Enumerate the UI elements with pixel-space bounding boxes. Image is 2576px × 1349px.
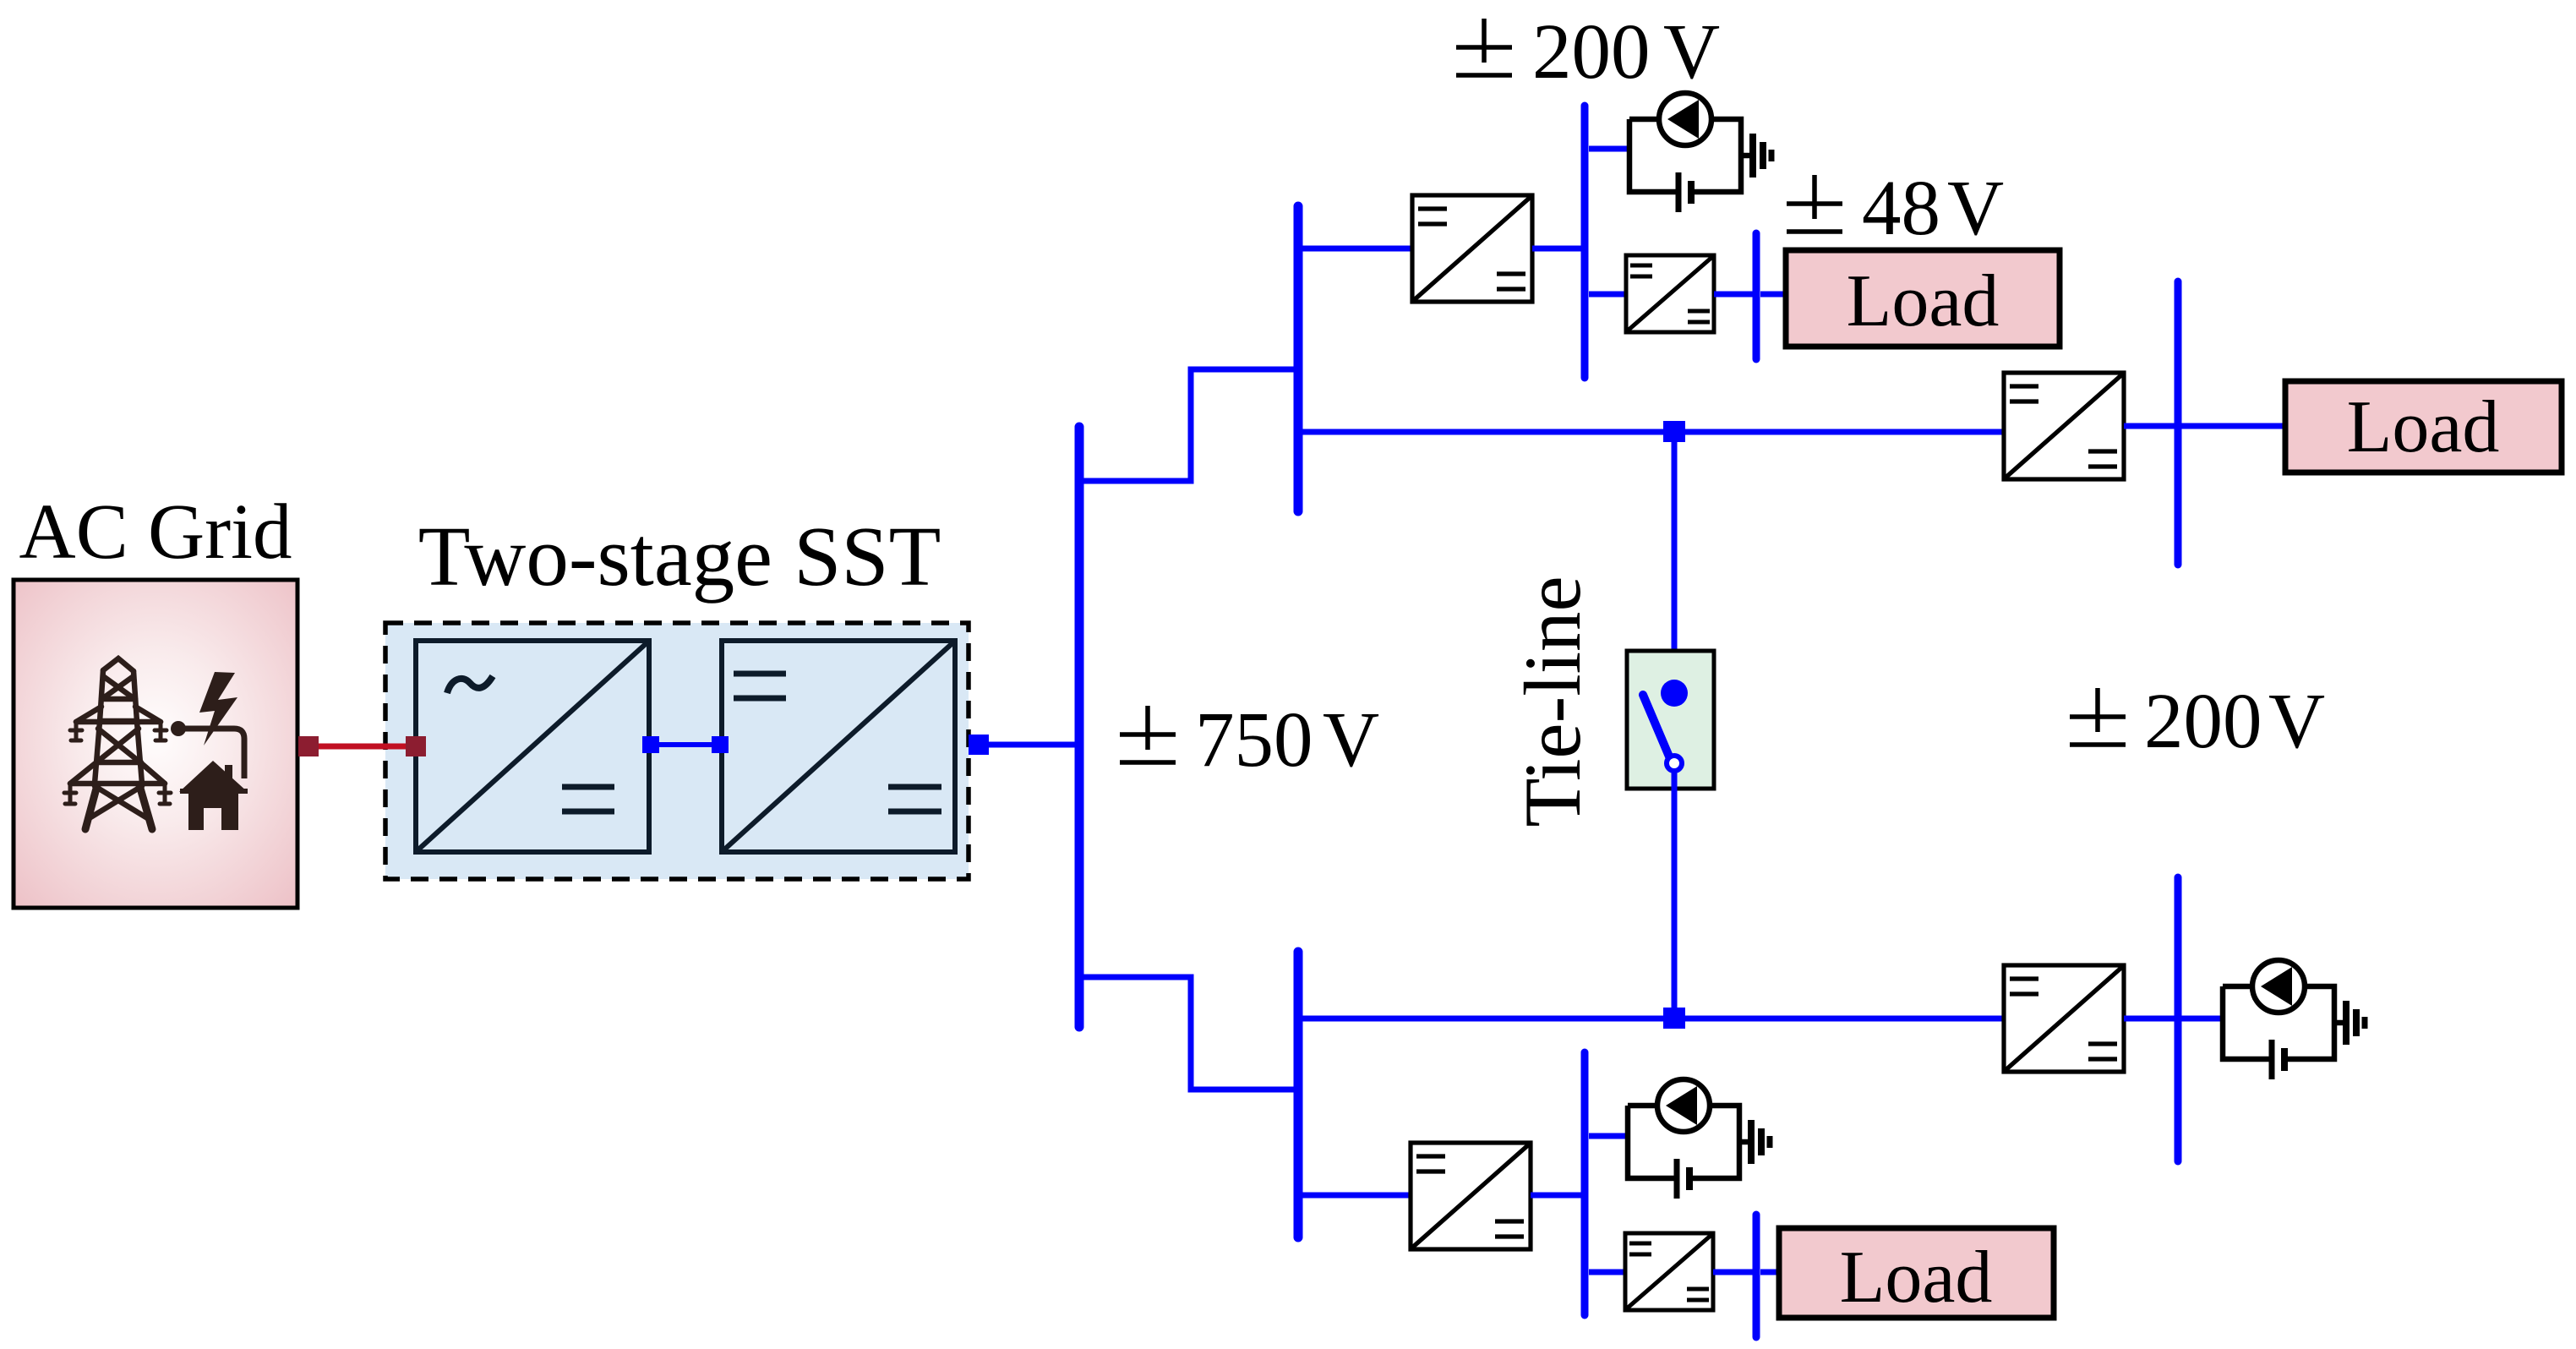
Load R1 box — [2285, 381, 2562, 472]
DC/DC converter S2 — [1625, 1233, 1713, 1310]
DC link connector square left — [642, 736, 659, 753]
DC/DC converter M1 — [1412, 195, 1532, 302]
switch lever — [1643, 695, 1669, 756]
wire bus to battery 2 — [1589, 1133, 1628, 1139]
SST AC/DC converter U1 — [416, 641, 649, 852]
junction node 2 — [1663, 1008, 1685, 1029]
wire M1 to ±200V bus — [1532, 246, 1582, 252]
tie-line wire lower — [1672, 771, 1678, 1008]
wire S2 to ±48V bus 2 — [1713, 1270, 1755, 1275]
±48V label — [1787, 175, 1842, 232]
tie-line switch box — [1627, 651, 1714, 789]
wire ±48V bus 2 to Load 2 — [1760, 1270, 1782, 1275]
±48V bus 2 — [1753, 1215, 1760, 1337]
DC link connector square right — [712, 736, 729, 753]
AC grid icon: transmission tower — [70, 658, 165, 819]
wire ±48V bus to Load 1 — [1760, 292, 1789, 298]
wire M2 to ±200V bus subgrid 2 — [1531, 1193, 1582, 1199]
±200V bus subgrid 2 — [1581, 1052, 1589, 1315]
DC/DC converter B3 — [2004, 965, 2124, 1072]
svg-text:Tie-line: Tie-line — [1508, 576, 1597, 827]
±200V label top — [1456, 19, 1512, 75]
wire main bus to subgrid bus 1 (step) — [1079, 369, 1296, 481]
feeder 2 wire — [1302, 1016, 2004, 1022]
wire bus to converter S1 — [1589, 292, 1626, 298]
subgrid bus 1 — [1294, 206, 1303, 511]
Load 1 box — [1786, 250, 2060, 347]
wire B1 to right ±200V bus and Load — [2124, 423, 2289, 429]
AC Grid box — [14, 580, 297, 908]
wire main bus to subgrid bus 2 (step) — [1079, 977, 1296, 1090]
±200V label right — [2070, 688, 2126, 745]
AC wire (dark red) — [308, 744, 416, 750]
main DC bus ±750V — [1075, 427, 1084, 1027]
AC wire connector square left — [298, 736, 319, 756]
SST output wire to main bus — [979, 742, 1077, 748]
svg-text:Load: Load — [2347, 386, 2500, 468]
svg-text:V: V — [2268, 678, 2325, 765]
SST DC/DC converter U2 — [722, 641, 955, 852]
Load 2 box — [1779, 1228, 2054, 1318]
right ±200V bus (bottom) — [2175, 877, 2182, 1161]
svg-text:Load: Load — [1840, 1237, 1993, 1319]
wire bus to converter S2 — [1589, 1270, 1625, 1275]
wire bus1 to converter M1 — [1302, 246, 1412, 252]
svg-text:V: V — [1323, 696, 1379, 784]
svg-text:V: V — [1663, 8, 1720, 96]
wire bus2 to converter M2 — [1302, 1193, 1411, 1199]
DC link wire between U1 and U2 — [651, 742, 720, 747]
right ±200V bus (top) — [2175, 281, 2182, 565]
switch node dot — [1661, 680, 1688, 707]
feeder 1 wire — [1302, 429, 2004, 435]
AC grid icon: plug dot and wire — [171, 721, 186, 736]
svg-text:200: 200 — [1532, 8, 1651, 96]
AC grid icon: lightning bolt — [199, 672, 237, 745]
wire B3 to right ±200V bus (bottom) — [2124, 1016, 2224, 1022]
battery storage unit 3 — [2223, 960, 2365, 1079]
DC/DC converter M2 — [1411, 1143, 1531, 1249]
Two-stage SST dashed box — [385, 623, 969, 879]
svg-text:750: 750 — [1195, 696, 1313, 784]
±200V bus subgrid 1 — [1581, 106, 1589, 378]
DC/DC converter S1 — [1626, 255, 1714, 332]
svg-text:Two-stage SST: Two-stage SST — [418, 509, 941, 603]
svg-text:V: V — [1947, 165, 2004, 252]
wire S1 to ±48V bus — [1714, 292, 1755, 298]
SST output connector square — [969, 735, 989, 755]
svg-text:48: 48 — [1862, 165, 1940, 252]
battery storage unit 2 — [1628, 1079, 1770, 1199]
svg-text:200: 200 — [2144, 678, 2262, 765]
wire bus to battery 1 — [1589, 146, 1629, 152]
switch open contact — [1667, 756, 1682, 771]
svg-text:Load: Load — [1847, 260, 2000, 342]
svg-text:AC Grid: AC Grid — [19, 489, 292, 576]
AC wire connector square right — [406, 736, 426, 756]
subgrid bus 2 — [1294, 952, 1303, 1237]
±750V label — [1120, 706, 1176, 762]
tie-line wire upper — [1672, 440, 1678, 690]
junction node 1 — [1663, 421, 1685, 442]
AC grid icon: house — [179, 761, 248, 792]
tower insulators — [64, 722, 171, 804]
DC/DC converter B1 — [2004, 373, 2124, 479]
±48V bus — [1753, 233, 1760, 359]
battery storage unit 1 — [1629, 93, 1771, 212]
